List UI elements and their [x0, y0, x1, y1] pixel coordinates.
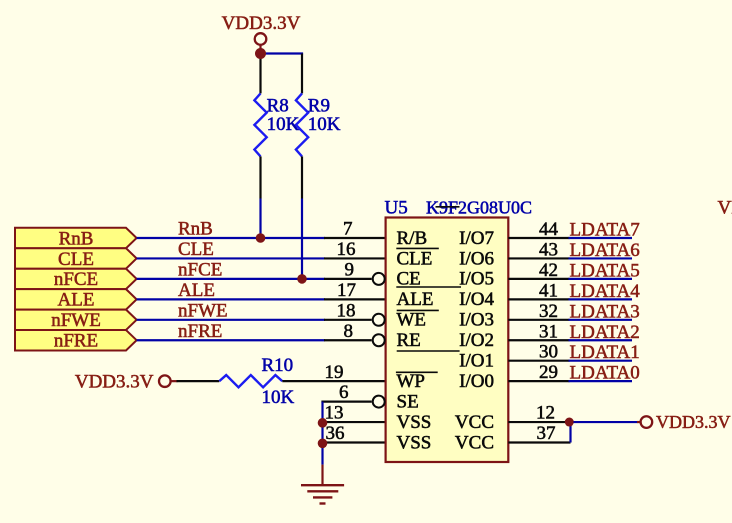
svg-text:VSS: VSS	[397, 412, 432, 433]
svg-text:RnB: RnB	[178, 219, 213, 240]
svg-text:I/O5: I/O5	[459, 269, 494, 290]
svg-text:I/O6: I/O6	[459, 248, 494, 269]
svg-text:CLE: CLE	[58, 249, 94, 270]
svg-text:6: 6	[339, 382, 349, 403]
svg-text:I/O2: I/O2	[459, 330, 494, 351]
svg-text:R10: R10	[262, 355, 294, 376]
svg-text:12: 12	[536, 403, 555, 424]
svg-text:nFWE: nFWE	[51, 310, 101, 331]
svg-text:17: 17	[337, 280, 356, 301]
svg-text:VDD3.3V: VDD3.3V	[75, 371, 154, 392]
svg-text:nFRE: nFRE	[54, 331, 98, 352]
svg-text:LDATA4: LDATA4	[570, 281, 641, 302]
svg-text:43: 43	[539, 239, 558, 260]
svg-text:32: 32	[539, 301, 558, 322]
svg-text:CLE: CLE	[178, 239, 214, 260]
svg-text:ALE: ALE	[58, 290, 95, 311]
svg-text:WP: WP	[397, 371, 426, 392]
svg-text:37: 37	[537, 423, 556, 444]
svg-text:RE: RE	[397, 330, 421, 351]
svg-text:CLE: CLE	[397, 248, 433, 269]
svg-text:VD: VD	[718, 198, 732, 219]
svg-text:I/O0: I/O0	[459, 371, 494, 392]
svg-text:LDATA0: LDATA0	[570, 363, 640, 384]
svg-text:LDATA3: LDATA3	[570, 301, 640, 322]
svg-text:10K: 10K	[262, 387, 295, 408]
svg-text:7: 7	[343, 219, 353, 240]
svg-text:VDD3.3V: VDD3.3V	[222, 13, 301, 34]
svg-text:VCC: VCC	[455, 432, 494, 453]
svg-text:WE: WE	[397, 310, 427, 331]
svg-text:10K: 10K	[267, 114, 300, 135]
svg-text:16: 16	[337, 239, 356, 260]
svg-text:10K: 10K	[308, 114, 341, 135]
svg-text:9: 9	[345, 260, 355, 281]
svg-text:18: 18	[337, 300, 356, 321]
svg-text:nFCE: nFCE	[178, 260, 222, 281]
svg-text:LDATA2: LDATA2	[570, 322, 640, 343]
svg-text:VDD3.3V: VDD3.3V	[656, 412, 731, 432]
svg-text:36: 36	[326, 423, 345, 444]
svg-text:SE: SE	[397, 391, 419, 412]
svg-text:I/O4: I/O4	[459, 289, 494, 310]
svg-text:I/O3: I/O3	[459, 310, 494, 331]
svg-text:LDATA1: LDATA1	[570, 342, 640, 363]
svg-text:44: 44	[539, 219, 559, 240]
svg-text:19: 19	[325, 362, 344, 383]
svg-text:LDATA7: LDATA7	[570, 220, 640, 241]
svg-text:41: 41	[539, 280, 558, 301]
svg-text:nFRE: nFRE	[178, 321, 222, 342]
svg-text:29: 29	[539, 362, 558, 383]
svg-text:30: 30	[539, 342, 558, 363]
svg-text:LDATA5: LDATA5	[570, 260, 640, 281]
svg-text:ALE: ALE	[178, 280, 215, 301]
svg-text:8: 8	[344, 321, 354, 342]
svg-text:42: 42	[539, 260, 558, 281]
svg-text:nFWE: nFWE	[178, 300, 228, 321]
svg-text:VCC: VCC	[455, 412, 494, 433]
svg-text:I/O7: I/O7	[459, 228, 494, 249]
svg-text:RnB: RnB	[59, 228, 94, 249]
svg-text:31: 31	[539, 321, 558, 342]
svg-text:U5: U5	[385, 198, 408, 219]
svg-text:R/B: R/B	[397, 228, 428, 249]
svg-text:13: 13	[325, 403, 344, 424]
svg-text:nFCE: nFCE	[54, 269, 98, 290]
svg-text:LDATA6: LDATA6	[570, 240, 640, 261]
svg-text:VSS: VSS	[397, 432, 432, 453]
svg-text:ALE: ALE	[397, 289, 434, 310]
svg-text:I/O1: I/O1	[459, 351, 494, 372]
